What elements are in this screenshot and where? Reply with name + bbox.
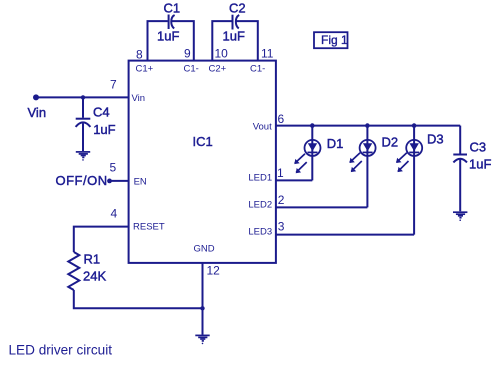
wire R1 to ground junction xyxy=(74,290,203,308)
svg-text:7: 7 xyxy=(110,78,117,92)
pin 4 xyxy=(111,207,165,233)
svg-text:1uF: 1uF xyxy=(469,157,491,172)
wire to C3 xyxy=(459,126,461,154)
svg-text:EN: EN xyxy=(134,176,147,187)
node Fig 1 box xyxy=(314,32,348,48)
node junction D3 xyxy=(412,123,417,128)
svg-text:3: 3 xyxy=(278,219,285,233)
svg-text:Vin: Vin xyxy=(28,105,47,120)
svg-text:1uF: 1uF xyxy=(223,29,245,44)
capacitor C3 xyxy=(453,140,491,172)
svg-text:C2: C2 xyxy=(229,1,246,16)
svg-text:6: 6 xyxy=(278,112,285,126)
svg-text:LED2: LED2 xyxy=(248,199,272,210)
svg-text:GND: GND xyxy=(194,244,215,255)
svg-text:C1-: C1- xyxy=(250,64,265,75)
LED D3 xyxy=(396,132,444,173)
svg-text:R1: R1 xyxy=(84,252,101,267)
wire LED1 xyxy=(276,179,312,181)
LED D1 xyxy=(294,136,343,173)
resistor R1 xyxy=(68,252,106,290)
svg-text:4: 4 xyxy=(111,207,118,221)
wire GND pin xyxy=(202,263,204,335)
svg-text:LED driver circuit: LED driver circuit xyxy=(9,343,113,358)
wire C4 to ground xyxy=(82,124,84,152)
pin 5 xyxy=(110,161,147,188)
svg-text:Vin: Vin xyxy=(132,93,146,104)
pin 2 xyxy=(248,193,284,211)
capacitor C1 xyxy=(157,1,180,44)
node junction ground xyxy=(200,306,204,310)
wire pin10 to C2 xyxy=(212,21,231,61)
LED D2 xyxy=(349,135,398,173)
wire LED3 xyxy=(276,234,414,236)
wire D2 branch xyxy=(366,126,368,208)
svg-text:Vout: Vout xyxy=(253,122,272,133)
wire D1 branch xyxy=(311,126,313,181)
svg-text:24K: 24K xyxy=(83,269,106,284)
node junction C4 xyxy=(81,95,85,99)
svg-text:11: 11 xyxy=(261,47,274,61)
node Vin terminal xyxy=(28,94,47,120)
pin 3 xyxy=(248,219,284,237)
svg-text:C2+: C2+ xyxy=(209,64,227,75)
pin 8 xyxy=(136,48,154,75)
op-amp U1 IC1 body xyxy=(129,61,276,263)
ground C3 xyxy=(453,212,467,221)
svg-text:1uF: 1uF xyxy=(93,122,115,137)
svg-text:5: 5 xyxy=(110,161,117,175)
capacitor C2 xyxy=(223,1,246,44)
svg-text:8: 8 xyxy=(136,48,143,62)
wire to C4 xyxy=(82,97,84,117)
pin 1 xyxy=(248,166,284,184)
pin 10 xyxy=(209,47,229,75)
svg-text:D3: D3 xyxy=(427,132,444,147)
svg-text:Fig 1: Fig 1 xyxy=(321,33,348,47)
svg-text:12: 12 xyxy=(207,264,221,278)
svg-text:C1+: C1+ xyxy=(136,64,154,75)
wire pin8 to C1 xyxy=(148,21,168,61)
svg-text:C1: C1 xyxy=(164,1,181,16)
node OFF/ON xyxy=(56,173,112,188)
svg-text:D1: D1 xyxy=(327,136,344,151)
wire C2 to pin11 xyxy=(236,21,258,61)
svg-text:D2: D2 xyxy=(382,135,399,150)
node title xyxy=(9,343,113,358)
node junction D2 xyxy=(365,123,370,128)
wire Vin input xyxy=(36,96,129,98)
svg-text:1: 1 xyxy=(277,166,284,180)
svg-text:OFF/ON: OFF/ON xyxy=(56,173,108,188)
wire EN xyxy=(110,180,129,182)
pin 6 xyxy=(253,112,285,133)
svg-text:LED3: LED3 xyxy=(248,226,272,237)
pin 9 xyxy=(184,47,199,75)
pin 7 xyxy=(110,78,145,104)
svg-text:LED1: LED1 xyxy=(248,172,272,183)
wire C3 to ground xyxy=(459,160,461,212)
wire RESET to R1 xyxy=(74,227,129,252)
wire D3 branch xyxy=(413,126,415,235)
svg-text:C4: C4 xyxy=(93,105,110,120)
node junction D1 xyxy=(310,123,315,128)
svg-text:2: 2 xyxy=(278,193,285,207)
svg-text:RESET: RESET xyxy=(133,222,165,233)
ground main xyxy=(195,335,209,344)
wire C1 to pin9 xyxy=(171,21,193,61)
pin 12 xyxy=(194,244,221,278)
svg-text:10: 10 xyxy=(215,47,229,61)
svg-text:C1-: C1- xyxy=(184,64,199,75)
pin 11 xyxy=(250,47,274,75)
svg-text:IC1: IC1 xyxy=(193,134,213,149)
svg-text:C3: C3 xyxy=(470,140,487,155)
capacitor C4 xyxy=(76,105,116,138)
ground C4 xyxy=(76,152,90,161)
svg-text:1uF: 1uF xyxy=(157,29,179,44)
wire LED2 xyxy=(276,206,368,208)
wire Vout rail xyxy=(276,125,460,127)
svg-text:9: 9 xyxy=(184,47,191,61)
